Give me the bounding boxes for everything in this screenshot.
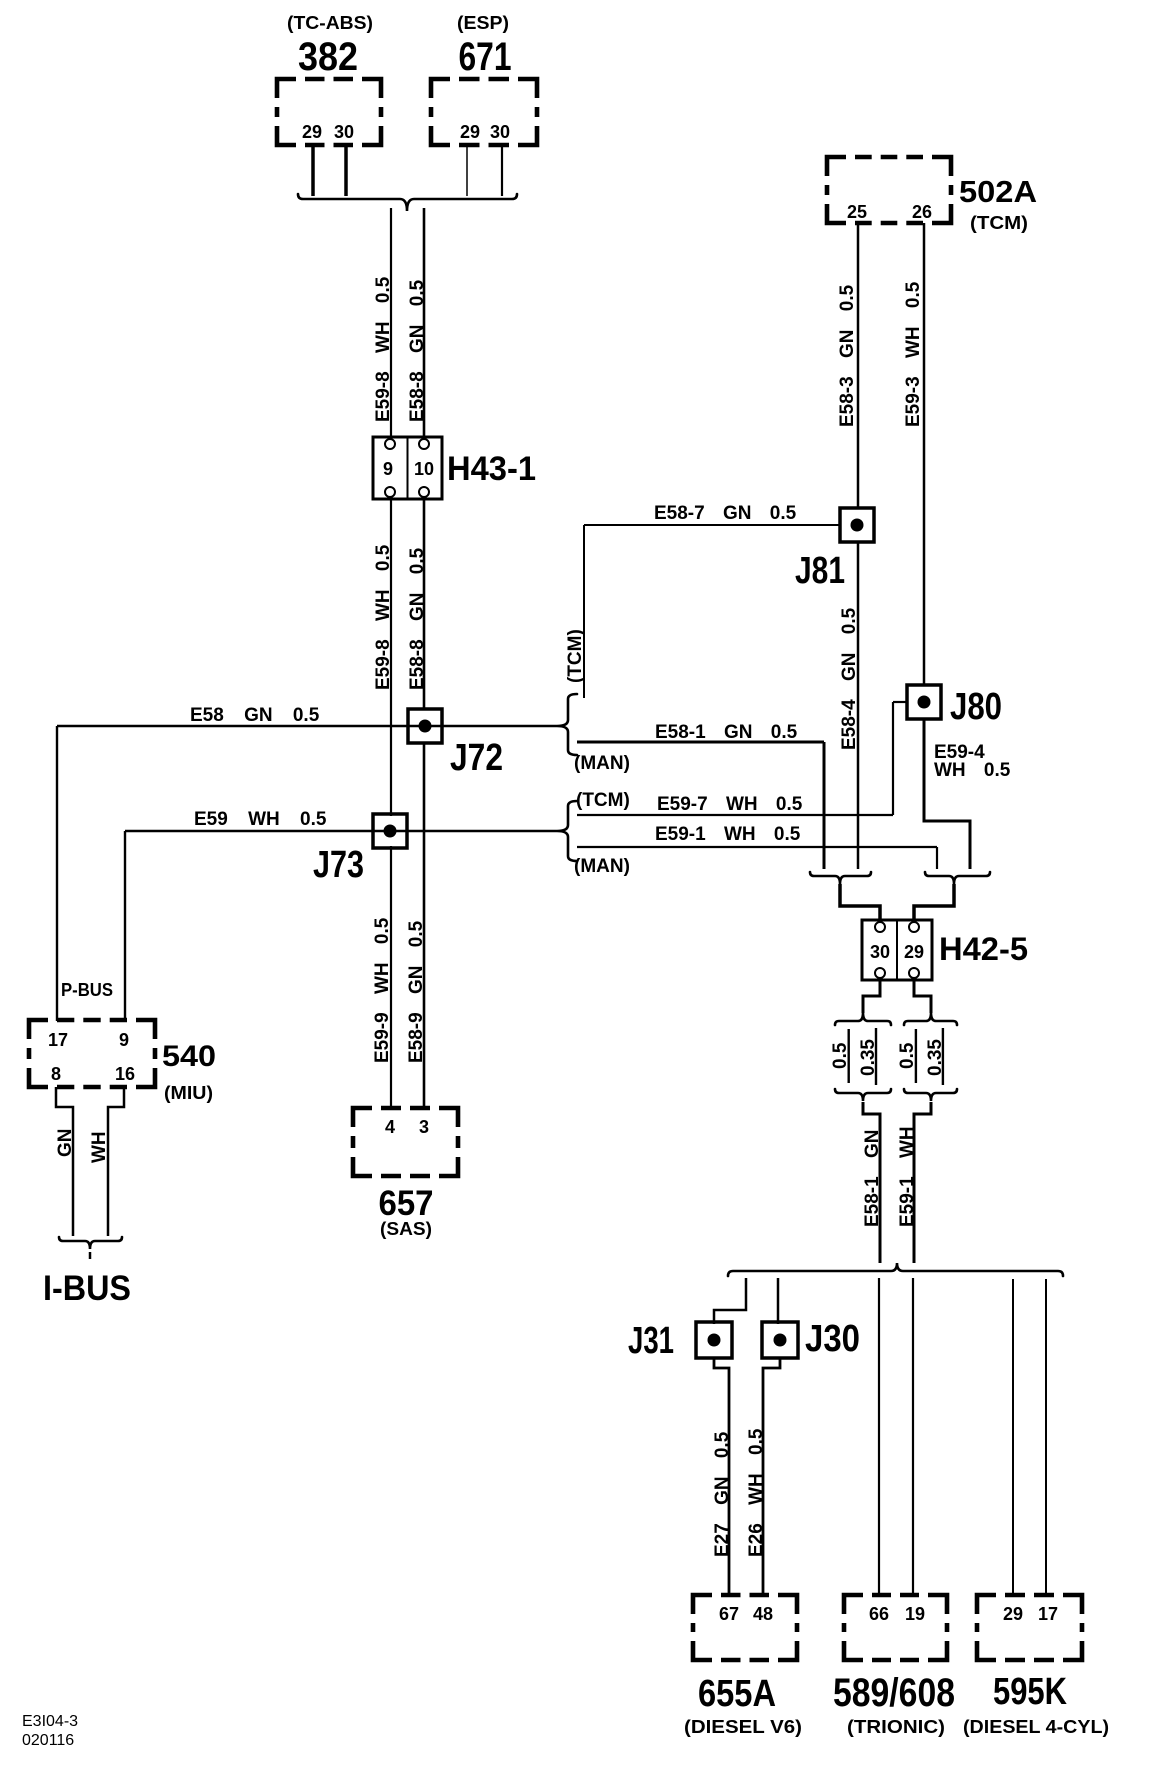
svg-text:J73: J73 (313, 844, 364, 886)
svg-text:E58-8 GN 0.5: E58-8 GN 0.5 (407, 279, 428, 422)
svg-text:J31: J31 (628, 1320, 674, 1362)
svg-text:655A: 655A (698, 1673, 776, 1715)
svg-text:I-BUS: I-BUS (43, 1269, 131, 1308)
svg-text:(MIU): (MIU) (164, 1083, 213, 1103)
svg-text:P-BUS: P-BUS (61, 980, 113, 1000)
svg-text:WH 0.5: WH 0.5 (934, 760, 1011, 781)
svg-text:26: 26 (912, 202, 932, 222)
svg-text:(TRIONIC): (TRIONIC) (847, 1717, 945, 1737)
svg-text:17: 17 (48, 1030, 68, 1050)
svg-text:E59-8 WH 0.5: E59-8 WH 0.5 (373, 544, 394, 690)
svg-text:30: 30 (870, 942, 890, 962)
svg-text:(TCM): (TCM) (565, 629, 586, 683)
svg-text:25: 25 (847, 202, 867, 222)
svg-text:E59-9 WH 0.5: E59-9 WH 0.5 (372, 917, 393, 1063)
svg-text:J80: J80 (950, 686, 1002, 728)
svg-text:E58-1 GN 0.5: E58-1 GN 0.5 (655, 722, 798, 743)
svg-text:E3I04-3: E3I04-3 (22, 1713, 78, 1730)
svg-text:(ESP): (ESP) (457, 13, 509, 33)
svg-text:020116: 020116 (22, 1732, 74, 1749)
svg-text:E59-1 WH 0.5: E59-1 WH 0.5 (655, 824, 801, 845)
svg-text:E58-4 GN 0.5: E58-4 GN 0.5 (839, 607, 860, 750)
svg-text:(SAS): (SAS) (380, 1219, 432, 1239)
svg-text:J72: J72 (450, 737, 503, 779)
svg-text:17: 17 (1038, 1604, 1058, 1624)
svg-text:E58-3 GN 0.5: E58-3 GN 0.5 (837, 284, 858, 427)
svg-text:30: 30 (490, 122, 510, 142)
svg-text:589/608: 589/608 (833, 1671, 955, 1715)
svg-text:J81: J81 (795, 550, 845, 592)
svg-text:67: 67 (719, 1604, 739, 1624)
svg-text:8: 8 (51, 1064, 61, 1084)
svg-text:0.5: 0.5 (897, 1042, 918, 1069)
svg-text:29: 29 (1003, 1604, 1023, 1624)
svg-text:657: 657 (379, 1184, 434, 1223)
svg-text:(TC-ABS): (TC-ABS) (287, 13, 373, 33)
svg-text:E58-8 GN 0.5: E58-8 GN 0.5 (407, 547, 428, 690)
svg-text:(DIESEL V6): (DIESEL V6) (684, 1717, 802, 1737)
svg-text:H43-1: H43-1 (447, 450, 536, 488)
svg-text:502A: 502A (959, 174, 1037, 209)
svg-text:0.5: 0.5 (830, 1042, 851, 1069)
svg-text:J30: J30 (805, 1318, 860, 1360)
svg-text:29: 29 (302, 122, 322, 142)
svg-text:9: 9 (383, 459, 393, 479)
svg-text:E59-8 WH 0.5: E59-8 WH 0.5 (373, 276, 394, 422)
svg-text:(MAN): (MAN) (574, 753, 630, 774)
svg-text:E58-7 GN 0.5: E58-7 GN 0.5 (654, 503, 797, 524)
svg-text:(DIESEL 4-CYL): (DIESEL 4-CYL) (963, 1717, 1109, 1737)
svg-text:540: 540 (162, 1040, 216, 1073)
svg-text:48: 48 (753, 1604, 773, 1624)
svg-text:E59 WH 0.5: E59 WH 0.5 (194, 809, 327, 830)
svg-text:30: 30 (334, 122, 354, 142)
svg-text:9: 9 (119, 1030, 129, 1050)
svg-text:16: 16 (115, 1064, 135, 1084)
svg-text:3: 3 (419, 1117, 429, 1137)
svg-text:10: 10 (414, 459, 434, 479)
svg-text:29: 29 (460, 122, 480, 142)
svg-text:H42-5: H42-5 (939, 931, 1028, 967)
svg-text:(TCM): (TCM) (576, 790, 630, 811)
svg-text:29: 29 (904, 942, 924, 962)
svg-text:E58 GN 0.5: E58 GN 0.5 (190, 705, 320, 726)
svg-text:E58-1 GN: E58-1 GN (862, 1130, 883, 1227)
svg-text:382: 382 (298, 35, 358, 79)
svg-text:E26 WH 0.5: E26 WH 0.5 (746, 1428, 767, 1557)
svg-text:66: 66 (869, 1604, 889, 1624)
svg-text:595K: 595K (993, 1671, 1067, 1713)
svg-text:E59-3 WH 0.5: E59-3 WH 0.5 (903, 281, 924, 427)
svg-text:GN: GN (55, 1129, 76, 1158)
svg-text:E27 GN 0.5: E27 GN 0.5 (712, 1431, 733, 1557)
svg-text:0.35: 0.35 (858, 1039, 879, 1076)
svg-text:(TCM): (TCM) (970, 213, 1028, 233)
svg-text:0.35: 0.35 (925, 1039, 946, 1076)
svg-text:E58-9 GN 0.5: E58-9 GN 0.5 (406, 920, 427, 1063)
svg-text:671: 671 (459, 35, 512, 79)
svg-text:19: 19 (905, 1604, 925, 1624)
svg-text:WH: WH (89, 1131, 110, 1163)
svg-text:E59-1 WH: E59-1 WH (897, 1126, 918, 1227)
svg-text:4: 4 (385, 1117, 395, 1137)
svg-text:(MAN): (MAN) (574, 856, 630, 877)
svg-text:E59-7 WH 0.5: E59-7 WH 0.5 (657, 794, 803, 815)
